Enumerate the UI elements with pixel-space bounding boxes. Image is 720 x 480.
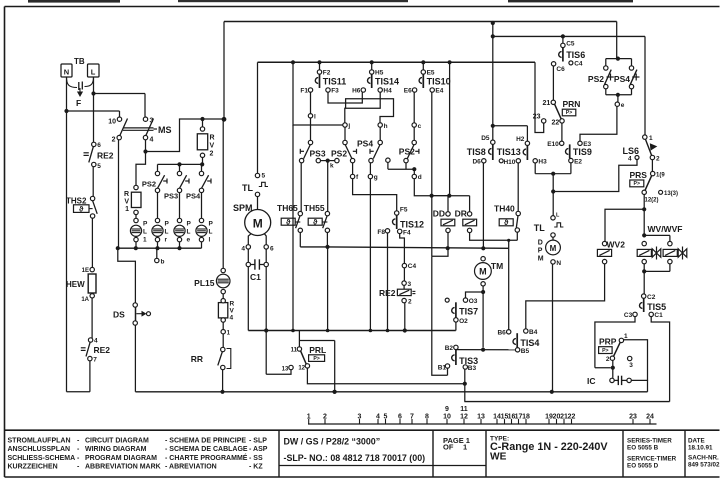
svg-text:3: 3 [358,414,362,421]
svg-text:P>: P> [313,356,320,362]
svg-text:h: h [384,123,388,130]
relay PRL bracket [298,331,300,347]
wire IC to PRP 1 [623,340,647,381]
svg-text:TIS8: TIS8 [467,147,486,157]
svg-text:5: 5 [97,163,101,170]
svg-text:B2: B2 [445,345,454,352]
cam switch TIS10 [422,62,424,70]
svg-text:P>: P> [634,181,641,187]
cam switch TIS7 [445,298,449,302]
resistor RV4 [222,294,224,301]
svg-text:22: 22 [568,414,576,421]
svg-text:- SLP: - SLP [249,437,267,444]
rail E4 down [431,92,433,256]
bus right corner down to node 23 [535,62,544,132]
svg-text:PRP: PRP [599,337,617,347]
svg-text:1E: 1E [82,268,89,274]
svg-text:j: j [347,123,350,130]
switch PS3 pilot [177,171,181,175]
wire to LS6-4 [553,160,637,192]
pilot lamp PLi [199,218,203,222]
cam switch TIS5 [642,294,646,298]
svg-text:12(2): 12(2) [645,198,659,204]
cam switch TIS14 [371,62,373,70]
bus D thermostat rail [300,247,508,248]
parallel switches PS2 PS4 box top right [616,22,618,59]
svg-text:TL: TL [242,183,253,193]
resistor RV1 [134,185,138,189]
svg-text:THS2: THS2 [66,197,87,206]
svg-text:TIS14: TIS14 [375,77,399,87]
wire F3 to H6 [328,92,362,103]
svg-text:13: 13 [477,414,485,421]
cam switch TIS8 [491,140,495,144]
svg-text:F2: F2 [323,70,331,77]
svg-text:PS2: PS2 [331,149,347,159]
svg-text:TIS11: TIS11 [323,77,347,87]
cam switch TIS9 [560,141,564,145]
cam switch TIS12 [395,211,399,215]
svg-text:7: 7 [93,357,97,364]
svg-text:E3: E3 [583,141,591,148]
svg-text:3: 3 [629,362,633,369]
svg-text:4: 4 [376,414,380,421]
svg-text:d: d [418,174,422,181]
programme track scale [308,423,657,425]
svg-text:P>: P> [602,348,609,354]
svg-text:11: 11 [291,348,298,354]
svg-text:E4: E4 [435,88,443,95]
svg-text:KURZZEICHEN: KURZZEICHEN [8,464,58,471]
svg-text:B5: B5 [521,348,530,355]
svg-text:SPM: SPM [233,203,253,213]
svg-text:C6: C6 [556,66,565,73]
cam switch TIS13 [525,141,529,145]
svg-text:TIS5: TIS5 [647,302,666,312]
cam switch TIS6 [562,36,564,43]
wire F4 to RE2 coil [400,234,405,264]
svg-text:PS3: PS3 [164,192,178,201]
svg-text:H6: H6 [352,88,361,95]
svg-text:R: R [124,191,129,198]
svg-text:TL: TL [534,223,545,233]
wire D6 to TM [482,163,484,248]
node j [343,123,347,127]
wire H10 to TH40 [517,163,519,211]
svg-text:TIS4: TIS4 [520,338,539,348]
svg-text:24: 24 [646,414,654,421]
svg-text:ANSCHLUSSPLAN: ANSCHLUSSPLAN [8,446,71,453]
wire d to E4 rail [414,179,431,196]
svg-text:D6: D6 [472,159,481,166]
svg-text:ϑ: ϑ [79,204,84,213]
rail y36 [493,35,645,37]
svg-text:3: 3 [408,281,412,288]
cam switch TIS4 [507,330,511,334]
arrow to earth F [79,88,81,92]
switch PS4 mid [379,127,381,140]
wire to door switch DS [118,248,136,303]
timer motor TM [481,257,485,261]
svg-text:10: 10 [443,414,451,421]
svg-text:C1: C1 [250,272,261,282]
svg-text:F8: F8 [377,229,385,236]
node F8 [385,229,389,233]
svg-text:PS4: PS4 [614,74,630,84]
svg-text:O2: O2 [459,318,468,325]
wire C3 to PRP [595,317,635,368]
pilot lamp PLe [177,218,181,222]
svg-text:E10: E10 [547,141,559,148]
capacitor C1 [247,249,249,262]
svg-text:- SCHEMA DE PRINCIPE: - SCHEMA DE PRINCIPE [165,437,246,444]
svg-text:R: R [210,135,215,142]
svg-text:CIRCUIT DIAGRAM: CIRCUIT DIAGRAM [85,437,149,444]
svg-text:6: 6 [398,414,402,421]
svg-text:V: V [210,143,215,150]
main switch MS [117,117,121,121]
svg-text:RE2: RE2 [97,151,114,161]
svg-text:2: 2 [112,137,116,144]
pilot lamp PLr [155,218,159,222]
svg-text:4: 4 [230,315,234,322]
svg-text:HEW: HEW [66,280,85,289]
svg-text:DS: DS [113,310,125,320]
svg-text:k: k [330,163,334,170]
node C4 [402,263,406,267]
svg-text:C1: C1 [654,312,663,319]
svg-text:18.10.91: 18.10.91 [688,445,713,452]
svg-text:PS3: PS3 [310,149,326,159]
switch PS2 pilot [155,171,159,175]
svg-text:C-Range 1N - 220-240V: C-Range 1N - 220-240V [490,441,608,453]
svg-text:B1: B1 [438,365,447,372]
rail x493 [492,23,494,140]
svg-text:- KZ: - KZ [249,464,263,471]
door lock switch LS6 [643,135,647,139]
wire MS-2 down to lamp bus [118,140,120,248]
scan smudge top edge [28,0,120,3]
title block frame [5,429,720,431]
svg-text:STROMLAUFPLAN: STROMLAUFPLAN [8,437,71,444]
svg-text:TIS6: TIS6 [566,50,585,60]
main bus y62 [258,61,536,63]
svg-text:5: 5 [262,173,266,180]
svg-text:B4: B4 [529,329,538,336]
regeneration switch RR [221,347,225,351]
svg-text:DD: DD [433,209,445,219]
svg-text:6: 6 [270,246,274,253]
svg-text:C2: C2 [647,294,656,301]
svg-text:E6: E6 [404,88,412,95]
svg-text:- ASP: - ASP [249,446,268,453]
svg-text:12: 12 [460,414,468,421]
svg-text:M: M [253,217,263,231]
resistor RV2 [202,119,204,127]
wire E3 up to node e [580,106,617,141]
node h [378,123,382,127]
svg-text:LS6: LS6 [623,146,640,156]
wire j feed rail [293,62,343,125]
svg-text:WIRING DIAGRAM: WIRING DIAGRAM [85,446,147,453]
wire MS-4 junction [145,140,147,152]
svg-text:PS2: PS2 [588,74,604,84]
svg-text:1(9: 1(9 [656,173,665,179]
wire TM to O3 [466,292,484,298]
wire C6 to PRN 21 [552,66,554,100]
pilot lamp PL1 [134,218,138,222]
svg-text:B6: B6 [497,330,506,337]
svg-text:DATE: DATE [688,438,705,445]
svg-text:F1: F1 [300,88,308,95]
svg-text:22: 22 [552,120,560,127]
svg-text:M: M [550,244,557,253]
svg-text:H5: H5 [375,70,384,77]
svg-text:WV/WVF: WV/WVF [648,224,683,234]
svg-text:g: g [374,174,378,181]
svg-text:b: b [161,259,165,266]
svg-text:13: 13 [282,367,289,373]
svg-text:H4: H4 [383,88,392,95]
SPM terminals 4 6 [248,234,251,245]
pilot lamp PL15 [221,268,225,272]
svg-text:4: 4 [628,155,632,162]
svg-text:ϑ: ϑ [313,218,318,227]
drain pump motor DPM [552,192,554,216]
svg-text:H3: H3 [538,159,547,166]
wire bus D down to rail E [327,247,329,331]
wire to TIS5 [643,271,645,294]
svg-text:l: l [209,237,211,244]
svg-text:7: 7 [410,414,414,421]
svg-text:P: P [165,221,170,228]
svg-text:e: e [187,237,191,244]
svg-text:PRL: PRL [309,345,326,355]
bus to programme switches PS2 PS3 PS4 [158,163,203,165]
rail C [464,401,669,403]
svg-text:EO 5055 D: EO 5055 D [627,463,659,470]
staircase wires centre [346,99,394,123]
svg-text:TH65: TH65 [277,203,298,213]
door switch DS [133,303,137,307]
rail E y330 [248,330,455,332]
svg-text:TIS7: TIS7 [459,307,478,317]
node e [617,95,619,102]
switch PS4 pilot [199,171,203,175]
svg-text:N: N [64,68,69,77]
wire L to RE2 contact 6 [93,94,95,143]
svg-text:F3: F3 [331,88,339,95]
svg-text:l: l [314,113,316,120]
svg-text:D5: D5 [481,135,490,142]
svg-text:MS: MS [158,125,172,135]
bottom rail A [135,391,647,393]
bus corner down to TL [257,62,259,173]
node k [316,158,320,162]
svg-text:IC: IC [587,376,596,386]
node c [413,92,415,123]
svg-text:P>: P> [566,110,573,116]
svg-text:D: D [538,240,543,247]
svg-text:TIS9: TIS9 [573,147,592,157]
svg-text:23: 23 [533,114,541,121]
svg-text:21: 21 [543,100,551,107]
wire PRS to WV2 and valves [643,195,645,236]
wire N to RE2 contact 7 [67,391,90,393]
svg-text:2: 2 [323,414,327,421]
svg-text:L: L [143,229,147,236]
svg-text:ϑ: ϑ [504,218,509,227]
svg-text:P: P [209,221,214,228]
svg-text:N: N [556,260,561,267]
svg-text:-SLP- NO.: 08 4812 718 70017: -SLP- NO.: 08 4812 718 70017 (00) [284,453,426,463]
svg-text:EO 5055 B: EO 5055 B [627,445,659,452]
wire B6 column [508,248,510,329]
svg-text:E2: E2 [574,159,582,166]
svg-text:TIS13: TIS13 [497,147,521,157]
svg-text:11: 11 [460,406,468,413]
contact PRN [551,100,555,104]
svg-text:4: 4 [241,246,245,253]
rail B from PRL 12 [307,368,464,384]
wire L feed [93,77,95,94]
svg-text:F5: F5 [400,207,408,214]
timer contact TL with SPM [255,173,259,177]
node b stub [156,248,158,258]
svg-text:WE: WE [490,452,507,463]
cam switch TIS3 [454,345,458,349]
svg-text:C5: C5 [566,40,575,47]
svg-text:2: 2 [656,156,660,163]
switch PS3 mid [308,140,312,144]
svg-text:P: P [187,221,192,228]
relay contact RE2 lower [88,338,92,342]
svg-text:V: V [124,199,129,206]
svg-text:M: M [479,267,487,277]
wire B1 drop [432,256,448,375]
svg-text:SACH-NR.: SACH-NR. [688,455,719,462]
svg-text:O3: O3 [469,298,478,305]
svg-text:M: M [538,256,544,263]
relay coil RE2 [402,281,406,285]
svg-text:4: 4 [150,137,154,144]
svg-text:SERIES-TIMER: SERIES-TIMER [627,438,672,445]
svg-text:C4: C4 [408,263,417,270]
svg-text:H2: H2 [516,136,525,143]
svg-text:SCHLIESS-SCHEMA: SCHLIESS-SCHEMA [8,455,76,462]
svg-text:10: 10 [108,119,116,126]
svg-text:C4: C4 [574,61,583,68]
svg-text:13(3): 13(3) [664,191,678,197]
svg-text:6: 6 [97,142,101,149]
svg-text:4: 4 [94,338,98,345]
svg-text:L: L [209,229,213,236]
svg-text:PS2: PS2 [142,180,156,189]
svg-text:TM: TM [491,261,503,271]
svg-text:R: R [230,301,235,308]
wire D5 H2 header [493,125,528,127]
node bar with d [386,158,390,162]
svg-text:WV2: WV2 [607,239,626,249]
rail x224 down to PL15 [222,119,224,268]
rail E continues below to PRL 13 [265,331,267,375]
svg-text:1: 1 [125,206,129,213]
svg-text:- SS: - SS [249,455,263,462]
svg-text:2: 2 [408,299,412,306]
wires below C1 [247,267,249,331]
svg-text:DR: DR [455,209,467,219]
svg-text:18: 18 [522,414,530,421]
svg-text:P: P [143,221,148,228]
svg-text:1: 1 [624,333,628,340]
svg-text:1: 1 [143,237,147,244]
svg-text:1: 1 [307,414,311,421]
svg-text:PRS: PRS [630,170,648,180]
svg-text:ABBREVIATION MARK: ABBREVIATION MARK [85,464,161,471]
svg-text:TH40: TH40 [494,204,515,214]
svg-text:PS4: PS4 [186,192,201,201]
node l [310,92,312,113]
fuse / plug F [67,77,78,88]
svg-text:F4: F4 [403,230,411,237]
svg-text:L: L [91,68,96,77]
svg-text:9: 9 [445,406,449,413]
wire MS-4 to RV1 [136,152,146,186]
thermostat THS2 [90,196,94,200]
svg-text:B3: B3 [468,365,477,372]
svg-text:E5: E5 [427,70,435,77]
svg-text:c: c [418,123,422,130]
node 23 [542,119,546,123]
svg-text:TH55: TH55 [304,203,325,213]
DD jog to B1 drop [432,248,448,256]
svg-text:8: 8 [425,414,429,421]
wire 22 to TIS9 [561,123,563,141]
svg-text:- ABREVIATION: - ABREVIATION [165,464,217,471]
svg-text:2: 2 [606,356,610,363]
svg-text:ϑ: ϑ [286,218,291,227]
switch PS2 mid [344,127,346,140]
svg-text:5: 5 [384,414,388,421]
wire WV2 to B4 [526,264,605,329]
svg-text:H10: H10 [503,159,515,166]
pressure switch PRS [651,160,653,172]
svg-text:RE2: RE2 [379,288,396,298]
relay contact RE2 upper [92,142,96,146]
svg-text:PROGRAM DIAGRAM: PROGRAM DIAGRAM [85,455,157,462]
svg-text:L: L [165,229,169,236]
svg-text:1: 1 [649,135,653,142]
svg-text:2: 2 [210,151,214,158]
svg-text:PRN: PRN [563,99,581,109]
wire H3 E2 bus [533,159,537,163]
svg-text:PS4: PS4 [357,139,373,149]
svg-text:PL15: PL15 [194,278,215,288]
svg-text:TIS12: TIS12 [400,220,424,230]
svg-text:OF: OF [443,443,454,452]
svg-text:1: 1 [463,443,467,452]
cam switch TIS11 [319,62,321,70]
wire C1 to rail C [651,317,669,402]
wire N rail [66,77,68,111]
lamp bus [118,247,202,249]
svg-text:DW / GS / P28/2 “3000”: DW / GS / P28/2 “3000” [284,437,381,447]
water heater HEW [90,267,94,271]
svg-text:- SCHEMA DE CABLAGE: - SCHEMA DE CABLAGE [165,446,248,453]
svg-text:849 573/02 5: 849 573/02 5 [688,462,720,469]
svg-text:1A: 1A [81,297,89,303]
svg-text:TIS10: TIS10 [427,77,451,87]
